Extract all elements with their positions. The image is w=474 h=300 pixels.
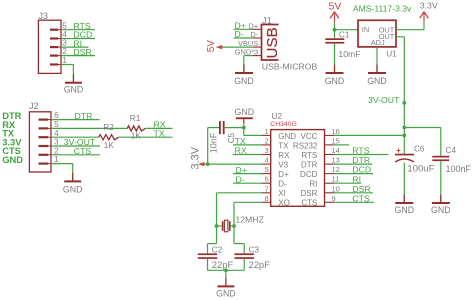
svg-text:ADJ: ADJ: [371, 38, 385, 47]
svg-text:C1: C1: [339, 31, 350, 40]
svg-text:1: 1: [265, 127, 269, 136]
svg-text:1K: 1K: [104, 141, 115, 150]
svg-text:C3: C3: [249, 245, 260, 254]
svg-text:22pF: 22pF: [212, 259, 234, 270]
svg-text:5V: 5V: [329, 0, 342, 12]
svg-text:2: 2: [265, 136, 269, 145]
svg-text:V3: V3: [278, 161, 288, 170]
svg-text:2: 2: [62, 47, 67, 56]
svg-text:D+: D+: [278, 170, 289, 179]
svg-text:D-: D-: [235, 29, 244, 39]
svg-text:RI: RI: [352, 174, 361, 184]
svg-text:100uF: 100uF: [407, 163, 434, 174]
svg-text:10mF: 10mF: [338, 49, 360, 59]
svg-text:GND: GND: [431, 205, 451, 215]
svg-text:DTR: DTR: [301, 161, 318, 170]
svg-text:1: 1: [62, 56, 67, 65]
svg-text:RX: RX: [235, 146, 247, 156]
svg-text:22pF: 22pF: [249, 259, 271, 270]
svg-text:RS232: RS232: [293, 141, 318, 150]
svg-text:CTS: CTS: [74, 146, 92, 156]
svg-text:12: 12: [332, 165, 340, 174]
svg-text:8: 8: [265, 194, 269, 203]
svg-text:GND: GND: [325, 76, 345, 86]
svg-text:4: 4: [265, 156, 269, 165]
svg-text:GND: GND: [235, 107, 255, 117]
svg-text:D-: D-: [236, 174, 245, 184]
svg-text:GND: GND: [278, 132, 296, 141]
svg-text:13: 13: [332, 156, 340, 165]
svg-text:GND: GND: [395, 205, 415, 215]
svg-text:5V: 5V: [206, 40, 217, 53]
svg-text:12MHZ: 12MHZ: [235, 214, 264, 224]
svg-text:RI: RI: [309, 180, 317, 189]
svg-text:USB: USB: [264, 27, 281, 58]
svg-text:D+: D+: [236, 165, 247, 175]
svg-text:XO: XO: [278, 199, 290, 208]
svg-text:R1: R1: [130, 114, 141, 123]
svg-text:11: 11: [332, 175, 340, 184]
svg-text:C6: C6: [414, 145, 425, 154]
svg-text:GND: GND: [216, 289, 236, 299]
svg-text:XI: XI: [278, 189, 286, 198]
svg-text:14: 14: [332, 146, 340, 155]
svg-text:GND: GND: [63, 185, 83, 195]
svg-text:C4: C4: [446, 146, 457, 155]
svg-text:4: 4: [54, 129, 59, 138]
svg-text:DCD: DCD: [352, 165, 371, 175]
svg-text:5: 5: [62, 21, 67, 30]
svg-text:DSR: DSR: [352, 184, 370, 194]
svg-text:DTR: DTR: [75, 111, 93, 121]
svg-text:7: 7: [265, 184, 269, 193]
svg-text:GND: GND: [2, 154, 23, 165]
svg-text:IN: IN: [362, 25, 369, 34]
svg-text:TX: TX: [278, 141, 289, 150]
svg-text:1K: 1K: [131, 131, 142, 140]
svg-text:CH340G: CH340G: [270, 121, 296, 128]
svg-text:3V-OUT: 3V-OUT: [368, 95, 400, 105]
svg-text:VCC: VCC: [301, 132, 318, 141]
svg-text:DTR: DTR: [352, 155, 370, 165]
svg-text:RTS: RTS: [352, 146, 369, 156]
svg-text:RTS: RTS: [302, 151, 318, 160]
svg-text:10: 10: [332, 184, 340, 193]
svg-text:CTS: CTS: [352, 193, 370, 203]
svg-text:GND: GND: [234, 76, 254, 86]
svg-text:3: 3: [265, 146, 269, 155]
svg-text:U1: U1: [386, 50, 397, 59]
svg-text:GND: GND: [64, 84, 84, 94]
svg-text:100nF: 100nF: [446, 164, 472, 174]
svg-text:6: 6: [265, 175, 269, 184]
svg-text:R2: R2: [103, 123, 114, 132]
svg-text:1: 1: [54, 155, 59, 164]
svg-text:RX: RX: [278, 151, 290, 160]
svg-text:D-: D-: [278, 180, 287, 189]
svg-text:2: 2: [54, 146, 59, 155]
svg-text:5: 5: [265, 165, 269, 174]
svg-text:9: 9: [332, 194, 336, 203]
svg-text:DSR: DSR: [73, 47, 91, 57]
svg-text:J2: J2: [29, 101, 39, 111]
svg-text:6: 6: [54, 111, 59, 120]
svg-text:AMS-1117-3.3v: AMS-1117-3.3v: [353, 4, 412, 14]
svg-text:3.3V: 3.3V: [420, 0, 438, 10]
svg-text:15: 15: [332, 136, 340, 145]
svg-text:DCD: DCD: [300, 170, 318, 179]
svg-text:TX: TX: [235, 136, 246, 146]
svg-text:C2: C2: [212, 245, 223, 254]
svg-text:5: 5: [54, 120, 59, 129]
svg-text:GND: GND: [367, 76, 387, 86]
svg-text:3.3V: 3.3V: [189, 146, 201, 169]
svg-text:TX: TX: [154, 128, 165, 138]
svg-text:3: 3: [54, 138, 59, 147]
svg-text:USB-MICROB: USB-MICROB: [262, 62, 318, 72]
svg-text:10nF: 10nF: [209, 132, 219, 153]
svg-text:CTS: CTS: [301, 199, 317, 208]
svg-text:16: 16: [332, 127, 340, 136]
svg-text:U2: U2: [272, 112, 283, 121]
svg-text:DSR: DSR: [301, 189, 318, 198]
